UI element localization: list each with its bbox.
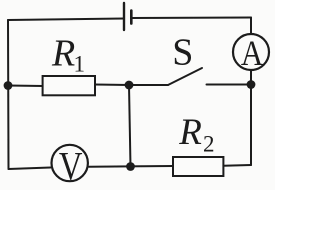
svg-text:2: 2 bbox=[203, 132, 215, 157]
svg-text:1: 1 bbox=[74, 52, 86, 77]
svg-text:R: R bbox=[178, 112, 202, 153]
svg-text:V: V bbox=[59, 144, 83, 188]
svg-text:R: R bbox=[51, 32, 75, 74]
svg-text:A: A bbox=[241, 34, 264, 74]
svg-text:S: S bbox=[172, 31, 193, 73]
